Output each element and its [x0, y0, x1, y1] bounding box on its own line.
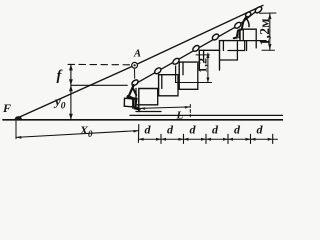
arrows of d cells	[139, 138, 273, 141]
step slab S3	[179, 62, 199, 89]
step slab S6	[240, 29, 256, 40]
dashed level line at A	[68, 63, 132, 65]
svg-text:d: d	[190, 123, 197, 137]
ground line	[3, 119, 283, 121]
person 1 bench box	[124, 98, 133, 107]
svg-text:L: L	[176, 110, 184, 122]
vertical dimension line f / y0	[70, 64, 72, 119]
svg-text:A: A	[133, 49, 141, 60]
pointer line head to A	[134, 69, 136, 79]
ball position 3	[192, 44, 200, 52]
person 2 sitting on top step	[234, 11, 252, 38]
head level line	[71, 84, 127, 86]
trajectory line 1: F through A to top right	[16, 5, 263, 118]
svg-text:d: d	[167, 123, 174, 137]
point F (filled half-disc)	[15, 116, 22, 120]
dimension 1,2 (step) vertical	[207, 53, 209, 83]
svg-text:F: F	[2, 101, 11, 115]
step slab S4	[199, 50, 219, 70]
plinth top line	[136, 111, 161, 113]
svg-text:1,2: 1,2	[195, 58, 209, 73]
step slab S1	[139, 89, 159, 112]
svg-text:1,2м: 1,2м	[257, 18, 272, 45]
person 2 bench box	[242, 30, 244, 41]
step slab S2	[159, 75, 180, 96]
person 1 sitting on lower step	[128, 79, 140, 110]
ball position 1	[154, 67, 162, 75]
top silhouette tread at person 2	[228, 41, 245, 51]
svg-text:d: d	[234, 123, 241, 137]
plinth mid line	[130, 114, 283, 116]
svg-text:d: d	[212, 123, 219, 137]
X0 dimension	[15, 121, 17, 139]
labels d	[145, 123, 264, 137]
arrows on vertical dim	[69, 64, 73, 70]
svg-text:d: d	[257, 123, 264, 137]
ball position 6 (top)	[254, 6, 263, 14]
step slab S5	[220, 41, 238, 70]
d dimension row	[139, 138, 278, 140]
dimension L under stairs	[140, 107, 190, 109]
svg-text:d: d	[145, 123, 152, 137]
point A circle	[132, 62, 138, 68]
ball position 5	[234, 21, 242, 29]
ball position 2	[172, 57, 180, 65]
dimension 1,2 m (right) vertical	[269, 13, 271, 50]
trajectory line 2: through head and ball positions	[137, 10, 258, 83]
ball position 4	[211, 33, 219, 41]
